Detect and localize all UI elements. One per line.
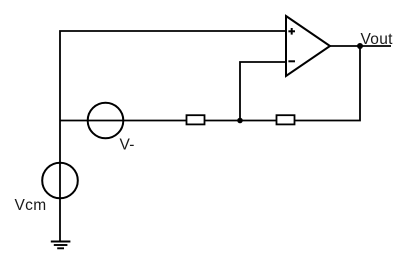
- resistor R1: [187, 115, 205, 124]
- wire: [60, 120, 187, 122]
- svg-text:Vout: Vout: [361, 31, 394, 48]
- wire: [330, 45, 391, 47]
- voltage source Vcm: [42, 163, 78, 199]
- node junction: [237, 118, 243, 124]
- wire: [205, 120, 277, 122]
- ground: [51, 242, 71, 249]
- node Vout: [357, 43, 363, 49]
- voltage source V-: [88, 103, 124, 139]
- op-amp U1: [286, 16, 330, 76]
- svg-text:V-: V-: [120, 137, 135, 154]
- wire: [295, 46, 361, 121]
- svg-text:Vcm: Vcm: [15, 197, 47, 214]
- wire: [240, 62, 286, 121]
- wire: [60, 31, 286, 242]
- resistor R2: [277, 115, 295, 124]
